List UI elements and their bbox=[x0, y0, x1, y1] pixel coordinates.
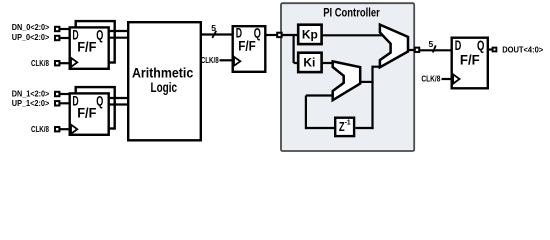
input port UP_0 bbox=[55, 36, 59, 40]
flip-flop FF2 clock triangle bbox=[71, 125, 77, 134]
wire F/F2 front Q to Arithmetic Logic bbox=[108, 103, 129, 105]
wire UP_1 port to F/F2 bbox=[59, 102, 70, 104]
wire CLK/8 port to F/F2 bbox=[59, 128, 70, 130]
gain block Kp bbox=[298, 25, 321, 44]
svg-text:Q: Q bbox=[96, 93, 103, 108]
svg-text:UP_0<2:0>: UP_0<2:0> bbox=[12, 32, 50, 42]
svg-text:DOUT<4:0>: DOUT<4:0> bbox=[502, 45, 543, 55]
flip-flop FF3 rectangle bbox=[233, 26, 266, 72]
flip-flop FF1 front rectangle bbox=[70, 27, 109, 68]
Arithmetic Logic label line2 bbox=[151, 80, 178, 95]
wire DN_0 port to F/F1 bbox=[59, 28, 70, 30]
output label DOUT<4:0> bbox=[502, 45, 543, 55]
svg-text:5: 5 bbox=[211, 23, 216, 33]
flip-flop FF4 label F/F bbox=[460, 52, 480, 68]
adder big (output summer) bbox=[380, 25, 408, 68]
svg-text:DN_0<2:0>: DN_0<2:0> bbox=[12, 22, 50, 32]
label Kp bbox=[302, 28, 318, 42]
wire UP_0 port to F/F1 bbox=[59, 37, 70, 39]
svg-text:5: 5 bbox=[429, 39, 434, 49]
bus width label 5 output bbox=[429, 39, 434, 49]
flip-flop FF2 front rectangle bbox=[70, 93, 109, 134]
flip-flop FF2 label F/F bbox=[77, 106, 96, 121]
adder small (accumulator) bbox=[333, 61, 361, 100]
bus slash mark (5) bbox=[212, 31, 216, 38]
svg-text:F/F: F/F bbox=[460, 52, 480, 68]
svg-text:Kp: Kp bbox=[302, 28, 318, 42]
flip-flop FF2 back rectangle bbox=[76, 87, 115, 128]
label CLK/8 at F/F4 bbox=[421, 75, 441, 84]
wire PI output port to F/F4 (5-bit bus) bbox=[419, 49, 452, 51]
wire feedback vertical left bbox=[305, 96, 307, 130]
wire riser down to Z-1 input bbox=[356, 127, 374, 129]
flip-flop FF1 clock triangle bbox=[71, 58, 77, 67]
wire feedback to small adder lower input bbox=[306, 94, 336, 96]
wire F/F1 back Q to Arithmetic Logic bbox=[108, 30, 129, 32]
svg-text:Q: Q bbox=[96, 27, 103, 42]
wire CLK/8 to F/F3 bbox=[220, 59, 234, 61]
svg-text:F/F: F/F bbox=[77, 106, 96, 121]
input label UP_0<2:0> bbox=[12, 32, 50, 42]
input port CLK/8 (lower) bbox=[55, 127, 59, 131]
svg-text:UP_1<2:0>: UP_1<2:0> bbox=[12, 98, 50, 108]
wire branch vertical to Ki bbox=[293, 35, 295, 63]
wire CLK/8 port to F/F1 bbox=[59, 62, 70, 64]
input port DN_1 bbox=[55, 92, 59, 96]
flip-flop FF3 clock triangle bbox=[234, 57, 240, 66]
wire riser to big adder lower input bbox=[373, 66, 382, 68]
svg-text:CLK/8: CLK/8 bbox=[31, 125, 50, 134]
svg-text:-1: -1 bbox=[345, 119, 351, 126]
wire small adder output to riser bbox=[359, 81, 374, 83]
flip-flop FF3 label D bbox=[236, 26, 242, 41]
svg-text:CLK/8: CLK/8 bbox=[421, 75, 441, 84]
label -1 exponent bbox=[345, 119, 351, 126]
flip-flop FF1 label D bbox=[72, 27, 78, 42]
wire CLK/8 to F/F4 bbox=[442, 78, 453, 80]
wire Z-1 output left bbox=[305, 127, 336, 129]
delay block Z-1 bbox=[335, 118, 354, 136]
wire branch to Ki bbox=[294, 62, 298, 64]
svg-text:CLK/8: CLK/8 bbox=[31, 59, 50, 68]
input label UP_1<2:0> bbox=[12, 98, 50, 108]
wire F/F3 Q to PI input port bbox=[265, 34, 278, 36]
label CLK/8 at F/F3 bbox=[201, 56, 220, 65]
wire Kp to big adder bbox=[322, 34, 384, 36]
flip-flop FF1 back rectangle bbox=[76, 21, 115, 62]
flip-flop FF2 label Q bbox=[96, 93, 103, 108]
svg-text:Ki: Ki bbox=[303, 55, 315, 69]
bus slash mark (5) output bbox=[433, 45, 436, 52]
flip-flop FF4 label Q bbox=[477, 37, 484, 53]
input label DN_1<2:0> bbox=[12, 89, 50, 99]
svg-text:CLK/8: CLK/8 bbox=[201, 56, 220, 65]
Arithmetic Logic block bbox=[128, 22, 201, 140]
wire F/F4 Q to DOUT port bbox=[487, 48, 493, 50]
wire PI port to Kp bbox=[282, 34, 298, 36]
flip-flop FF3 label F/F bbox=[238, 39, 256, 54]
input port CLK/8 (upper) bbox=[55, 61, 59, 65]
input label DN_0<2:0> bbox=[12, 22, 50, 32]
gain block Ki bbox=[298, 53, 321, 72]
wire Ki to small adder bbox=[322, 62, 335, 64]
flip-flop FF3 label Q bbox=[254, 26, 261, 41]
flip-flop FF4 rectangle bbox=[452, 38, 488, 89]
input port DN_0 bbox=[55, 27, 59, 31]
svg-text:Arithmetic: Arithmetic bbox=[132, 66, 194, 81]
PI output port square bbox=[415, 48, 419, 52]
input port UP_1 bbox=[55, 101, 59, 105]
flip-flop FF4 clock triangle bbox=[453, 74, 459, 83]
flip-flop FF2 label D bbox=[72, 93, 78, 108]
svg-text:PI Controller: PI Controller bbox=[323, 5, 380, 19]
svg-text:F/F: F/F bbox=[238, 39, 256, 54]
wire DN_1 port to F/F2 bbox=[59, 93, 70, 95]
output port DOUT bbox=[493, 48, 497, 52]
label Ki bbox=[303, 55, 315, 69]
PI Controller enclosure box bbox=[281, 3, 414, 151]
flip-flop FF1 label F/F bbox=[77, 40, 96, 55]
wire big adder output to PI output port bbox=[407, 49, 415, 51]
wire riser vertical (accumulator node) bbox=[371, 66, 373, 130]
wire Arithmetic Logic to F/F3 (5-bit bus) bbox=[200, 33, 233, 35]
label Z bbox=[339, 119, 345, 134]
svg-text:Logic: Logic bbox=[151, 80, 178, 95]
Arithmetic Logic label line1 bbox=[132, 66, 194, 81]
PI Controller title bbox=[323, 5, 380, 19]
input label CLK/8 (lower) bbox=[31, 125, 50, 134]
flip-flop FF4 label D bbox=[455, 37, 462, 53]
PI input port square bbox=[277, 33, 281, 37]
svg-text:Q: Q bbox=[477, 37, 484, 53]
input label CLK/8 (upper) bbox=[31, 59, 50, 68]
svg-text:F/F: F/F bbox=[77, 40, 96, 55]
wire F/F1 front Q to Arithmetic Logic bbox=[108, 37, 129, 39]
wire F/F2 back Q to Arithmetic Logic bbox=[108, 97, 129, 99]
bus width label 5 bbox=[211, 23, 216, 33]
svg-text:D: D bbox=[455, 37, 462, 53]
flip-flop FF1 label Q bbox=[96, 27, 103, 42]
